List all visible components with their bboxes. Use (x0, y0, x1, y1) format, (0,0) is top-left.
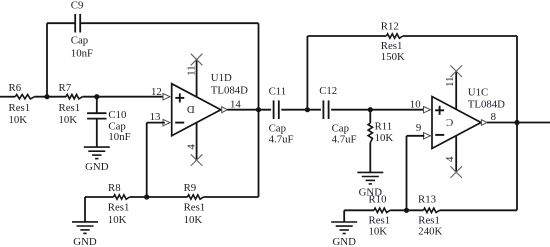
ground: under C10 (84, 146, 110, 148)
wire: C9 feedback right vertical to output node and R9 line (258, 23, 260, 197)
wire: C10 to ground (96, 119, 98, 148)
svg-text:10K: 10K (184, 214, 203, 226)
svg-text:Cap: Cap (332, 122, 349, 134)
U1C pin 11 no-ERC cross (450, 65, 462, 77)
ground: under R10 left (331, 221, 357, 223)
U1D pin 14 output arrow (222, 107, 228, 113)
node: junction U1D output / C9 feedback (256, 107, 261, 112)
resistor R10 (374, 208, 390, 212)
svg-text:C11: C11 (269, 86, 287, 98)
wire: R11 to ground (369, 143, 371, 173)
svg-text:R10: R10 (369, 193, 387, 205)
svg-text:C12: C12 (319, 85, 337, 97)
svg-text:GND: GND (73, 236, 97, 247)
svg-text:C: C (446, 116, 453, 128)
svg-text:Res1: Res1 (184, 201, 206, 213)
svg-text:10: 10 (410, 99, 421, 111)
wire: C9 feedback top left segment (47, 22, 75, 24)
svg-text:10nF: 10nF (108, 131, 130, 143)
svg-text:TL084D: TL084D (468, 99, 505, 111)
svg-text:R7: R7 (59, 82, 72, 94)
wire: R12 loop top right segment (403, 35, 517, 37)
capacitor C11 (273, 100, 275, 119)
svg-text:4: 4 (444, 156, 456, 162)
resistor R13 (424, 208, 440, 212)
resistor R7 (66, 95, 82, 99)
wire: U1D output to C11 (227, 109, 271, 111)
wire: pin 9 vertical down to R10/R13 (406, 136, 408, 211)
resistor R6 (15, 95, 34, 99)
node: junction R6/R7/C9 (44, 94, 49, 99)
U1C pin 4 vertical (455, 136, 457, 172)
U1C pin 4 no-ERC cross (450, 166, 462, 178)
svg-text:11: 11 (444, 76, 456, 86)
svg-text:240K: 240K (418, 225, 442, 237)
wire: R8 gnd stub left (85, 196, 114, 198)
node: junction R7/C10/pin12 (94, 94, 99, 99)
wire: R8 to R9 (130, 196, 188, 198)
svg-text:Res1: Res1 (381, 40, 403, 52)
svg-text:10nF: 10nF (71, 47, 93, 59)
wire: R13 to output vertical (440, 209, 518, 211)
ground: under R11 (357, 171, 383, 173)
U1D pin 11 vertical (196, 60, 198, 97)
wire: R12/R13 right vertical (output node) (516, 36, 518, 210)
U1D pin 4 no-ERC cross (191, 154, 203, 166)
capacitor C12 (322, 100, 324, 119)
U1D pin 12 arrow (163, 94, 170, 100)
svg-text:D: D (187, 103, 195, 115)
svg-text:Res1: Res1 (108, 201, 130, 213)
svg-text:10K: 10K (375, 132, 394, 144)
svg-text:12: 12 (151, 86, 162, 98)
U1C pin 8 output arrow (481, 120, 487, 126)
wire: R10 gnd stub (344, 209, 374, 211)
svg-text:150K: 150K (381, 51, 405, 63)
svg-text:14: 14 (230, 98, 241, 110)
resistor R12 (386, 34, 403, 38)
wire: U1C output to right edge (487, 122, 550, 124)
wire: pin 13 horizontal (147, 122, 165, 124)
svg-text:10K: 10K (59, 114, 78, 126)
ground: bottom left under R8 (72, 221, 98, 223)
op-amp U1D body (172, 84, 221, 136)
svg-text:Cap: Cap (269, 122, 286, 134)
svg-text:R8: R8 (108, 182, 121, 194)
wire: C9 feedback top right segment (80, 22, 258, 24)
svg-text:U1D: U1D (211, 72, 232, 84)
resistor R9 (188, 195, 204, 199)
wire: C9 feedback left vertical (46, 23, 48, 97)
svg-text:10K: 10K (108, 214, 127, 226)
svg-text:R9: R9 (184, 182, 197, 194)
U1C pin 11 vertical (455, 71, 457, 109)
node: junction pin9/R10/R13 (404, 208, 409, 213)
U1D pin 11 no-ERC cross (191, 54, 203, 66)
U1D minus mark (175, 122, 184, 124)
node: junction C12/R11/pin10 (368, 107, 373, 112)
U1C pin 10 arrow (424, 107, 431, 113)
node: junction U1C output / feedback (514, 120, 519, 125)
svg-text:R12: R12 (381, 21, 399, 33)
wire: pin 9 horizontal (407, 135, 425, 137)
wire: R11 from junction down (369, 110, 371, 124)
wire: R9 to output node vertical (204, 196, 259, 198)
svg-text:11: 11 (186, 65, 198, 75)
node: junction pin13/R8/R9 (144, 194, 149, 199)
wire: R8 left to ground (84, 197, 86, 222)
svg-text:R11: R11 (375, 121, 393, 133)
wire: pin 13 vertical down to R8/R9 line (146, 123, 148, 197)
node: junction C11/C12/R12 (305, 107, 310, 112)
wire: R12 loop top left segment (307, 35, 386, 37)
svg-text:C10: C10 (108, 109, 126, 121)
wire: R7 to U1D pin 12 (82, 96, 164, 98)
capacitor C10 (87, 112, 106, 114)
svg-text:10K: 10K (369, 225, 388, 237)
svg-text:GND: GND (332, 236, 356, 247)
wire: R12 loop left vertical (306, 36, 308, 110)
wire: C12 to U1C pin 10 (331, 109, 424, 111)
wire: R10 to R13 (390, 209, 424, 211)
wire: C11 to C12 (281, 109, 321, 111)
resistor R8 (114, 195, 130, 199)
U1D pin 4 vertical (196, 123, 198, 161)
svg-text:4.7uF: 4.7uF (332, 134, 357, 146)
svg-text:4.7uF: 4.7uF (269, 134, 294, 146)
wire: input from left edge (0, 96, 15, 98)
svg-text:9: 9 (416, 122, 421, 134)
resistor R11 (vertical) (368, 123, 372, 142)
U1D pin 13 arrow (163, 119, 170, 125)
svg-text:GND: GND (85, 161, 109, 173)
svg-text:U1C: U1C (468, 86, 488, 98)
svg-text:8: 8 (491, 111, 496, 123)
svg-text:C9: C9 (71, 0, 84, 12)
svg-text:TL084D: TL084D (211, 84, 248, 96)
wire: R10 left to ground (343, 210, 345, 222)
op-amp U1C body (432, 97, 481, 149)
svg-text:Res1: Res1 (9, 102, 31, 114)
svg-text:Res1: Res1 (59, 102, 81, 114)
svg-text:4: 4 (185, 144, 197, 150)
capacitor C9 (74, 14, 76, 33)
svg-text:R6: R6 (9, 82, 22, 94)
U1C plus mark (435, 109, 444, 111)
U1C pin 9 arrow (424, 133, 431, 139)
svg-text:10K: 10K (9, 114, 28, 126)
svg-text:Cap: Cap (71, 35, 88, 47)
wire: R6 to R7 (35, 96, 67, 98)
U1C minus mark (435, 134, 444, 136)
svg-text:13: 13 (150, 111, 161, 123)
svg-text:R13: R13 (418, 193, 436, 205)
wire: C10 from junction down (96, 97, 98, 114)
U1D plus mark (175, 97, 184, 99)
